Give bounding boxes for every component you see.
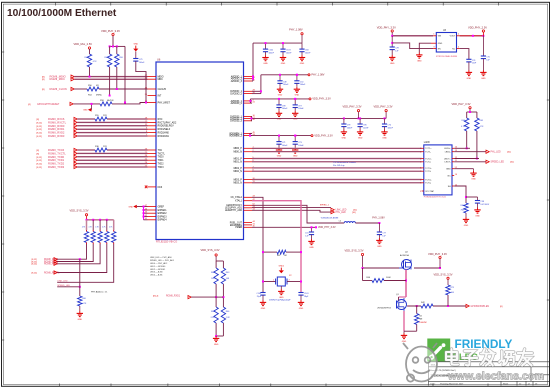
svg-text:CK_XTAL2: CK_XTAL2	[231, 196, 243, 199]
svg-text:100nF: 100nF	[282, 145, 288, 147]
capacitor C73 100nF	[293, 135, 305, 147]
node RGMII_MDIO off-page connector	[42, 75, 74, 79]
node RGMII_TX signal group connectors	[37, 148, 78, 169]
resistor R54 4.7K strap	[102, 227, 109, 245]
power net VDD_PHY_3.3V pullup rail	[101, 29, 120, 36]
svg-text:VDD_PHY_3.3V: VDD_PHY_3.3V	[451, 102, 470, 106]
wire SPEED_LED strap	[57, 286, 81, 288]
wire PHY-RESET right segment	[112, 103, 148, 104]
svg-text:C70: C70	[388, 125, 391, 127]
svg-text:AVDD33_2: AVDD33_2	[231, 102, 243, 105]
power net VDD_PHY_3.3V regulator input	[377, 26, 396, 36]
wire RXD1 strap	[191, 296, 223, 298]
wire R60 drop	[79, 259, 81, 296]
ground below C84	[299, 52, 305, 65]
capacitor C102 100nF	[263, 42, 275, 54]
svg-text:MDI1_N: MDI1_N	[233, 162, 242, 164]
svg-text:DVDDIO_2: DVDDIO_2	[230, 94, 242, 96]
wire RGMII_RX group	[77, 119, 147, 136]
svg-text:RGMII_TXCTL: RGMII_TXCTL	[48, 151, 66, 155]
ground below C97	[292, 108, 298, 121]
svg-text:LEDY+: LEDY+	[444, 158, 451, 160]
svg-text:POE26D021ET/YCT-16: POE26D021ET/YCT-16	[424, 197, 447, 199]
ground switch	[401, 331, 407, 343]
transformer LAN8 left pins	[420, 148, 435, 193]
node RGMII_RX signal group connectors	[37, 117, 78, 138]
svg-text:VDD_PHY_2.5V: VDD_PHY_2.5V	[468, 26, 487, 30]
svg-text:R66: R66	[462, 120, 465, 122]
svg-text:[8,12]: [8,12]	[37, 126, 43, 128]
wire RGMII_TX group	[77, 150, 147, 167]
svg-text:100K/NC: 100K/NC	[419, 322, 427, 324]
svg-text:R4: R4	[419, 316, 421, 318]
svg-text:PHY_NRST: PHY_NRST	[158, 102, 171, 104]
svg-text:NC: NC	[448, 176, 452, 178]
svg-text:GND2: GND2	[279, 266, 284, 268]
wire RGMII_CLKIN right segment	[99, 88, 148, 90]
svg-text:C96: C96	[363, 125, 366, 127]
resistor R52 4.7K strap	[89, 227, 96, 245]
resistor R55 22R	[95, 115, 107, 121]
ground below divider	[213, 336, 219, 346]
wire PHY-RESET left segment	[73, 103, 100, 105]
svg-text:100nF: 100nF	[298, 108, 304, 110]
svg-text:GREF: GREF	[158, 206, 165, 208]
op IC U6 RTL8211E-VB-CG body	[156, 58, 244, 240]
resistor R67 1M	[277, 250, 287, 257]
svg-text:R48: R48	[85, 57, 88, 59]
svg-text:LAN8: LAN8	[424, 141, 430, 144]
svg-text:RXD3/AN1: RXD3/AN1	[158, 135, 170, 138]
resistor R48 4.7K	[85, 54, 98, 67]
svg-text:Sheet: Sheet	[503, 383, 509, 386]
ground below C38	[474, 203, 480, 217]
note PHY Address	[91, 290, 108, 293]
svg-text:PHY Address: 1:1: PHY Address: 1:1	[91, 290, 108, 293]
svg-text:GND: GND	[279, 297, 284, 299]
svg-text:NM: NM	[419, 319, 422, 321]
svg-text:RXC: RXC	[158, 119, 163, 121]
watermark chinese characters	[446, 349, 532, 366]
svg-text:RTL8211E-VB-CG: RTL8211E-VB-CG	[156, 240, 177, 244]
wire RGMII_MDC	[74, 78, 147, 80]
svg-text:SPEED_1: SPEED_1	[320, 204, 330, 206]
power net VDD_PHY_2.5V regulator output	[468, 26, 487, 36]
svg-text:VDD_SYS_3.3V: VDD_SYS_3.3V	[201, 248, 220, 252]
regulator U3 pin stubs	[431, 34, 460, 49]
wire R49 bottom to INT	[109, 67, 111, 97]
svg-text:MDI2_N: MDI2_N	[233, 171, 242, 173]
power net VDD_PHY_3.3V tap A	[342, 105, 361, 119]
capacitor C98 100nF	[276, 98, 288, 110]
svg-text:2N7002MTF1G: 2N7002MTF1G	[377, 308, 391, 310]
svg-text:[8,12]: [8,12]	[37, 167, 43, 169]
logo FriendlyELEC green square	[427, 339, 450, 362]
wire R50 bottom to CLK125	[116, 67, 118, 90]
wire L4 to PHY_1.08V	[355, 222, 380, 224]
wire regulator output	[460, 35, 485, 37]
resistor R55 4.7K strap	[109, 227, 116, 245]
svg-text:16: 16	[455, 174, 457, 176]
svg-text:RGMII_MDC: RGMII_MDC	[50, 77, 65, 81]
wire XTAL1 run	[252, 201, 301, 293]
ground below C98	[276, 108, 282, 121]
svg-text:[10]: [10]	[507, 152, 511, 154]
logo FRIENDLY text	[455, 337, 513, 351]
wire pullup R48 top	[89, 49, 91, 54]
svg-text:TCT1+: TCT1+	[425, 148, 432, 150]
wire regulator EN tie to VIN	[392, 43, 433, 49]
wire divider mid	[215, 284, 224, 307]
wire R66 top	[466, 112, 468, 118]
resistor R53 4.7K strap	[95, 227, 102, 245]
svg-text:LED0-: LED0-	[445, 152, 451, 154]
power net VDD_SYS_3.3V switch	[345, 248, 364, 268]
node LINK_LED strap label	[57, 281, 68, 283]
svg-text:RXD2/AN0: RXD2/AN0	[158, 132, 170, 135]
svg-text:8: 8	[420, 179, 421, 181]
svg-text:L4: L4	[339, 221, 341, 223]
svg-text:VDD_PHY_3.3V: VDD_PHY_3.3V	[312, 98, 331, 101]
svg-text:R62: R62	[211, 272, 214, 274]
svg-text:C48: C48	[283, 81, 286, 83]
ground below C71	[276, 144, 282, 157]
wire VDDMEM rail to IC pins	[249, 133, 252, 136]
ground below C50	[294, 83, 300, 96]
ground below crystal	[278, 286, 284, 299]
svg-text:C100: C100	[256, 293, 261, 295]
svg-text:[8,12]: [8,12]	[37, 129, 43, 131]
wire pullup rail to PHY_NRST	[124, 46, 126, 103]
svg-text:GND: GND	[309, 247, 314, 249]
svg-text:PMEB: PMEB	[235, 227, 242, 229]
svg-text:4: 4	[420, 162, 421, 164]
svg-text:GND: GND	[83, 110, 88, 112]
svg-text:100nF: 100nF	[363, 127, 369, 129]
svg-text:C73: C73	[298, 142, 301, 144]
svg-text:RT9193-28/ALJS33M: RT9193-28/ALJS33M	[436, 55, 457, 58]
svg-text:C75: C75	[486, 57, 489, 59]
svg-text:LINK_LED --- PHY_AD0: LINK_LED --- PHY_AD0	[150, 256, 173, 259]
svg-text:Thursday, March 02, 2017: Thursday, March 02, 2017	[440, 384, 464, 386]
svg-text:GND: GND	[129, 206, 134, 208]
capacitor C48 100nF	[277, 74, 289, 86]
power net VDD_PHY_3.3V row3	[294, 98, 331, 101]
svg-text:VCC TAP: VCC TAP	[425, 190, 434, 193]
capacitor C84 100nF	[299, 43, 311, 54]
svg-text:GND: GND	[78, 319, 83, 321]
net label SPEED_1	[320, 204, 330, 206]
wire R46 right	[384, 280, 406, 282]
wire crystal pin2	[287, 281, 302, 283]
svg-text:6: 6	[420, 168, 421, 170]
wire crystal pin1	[262, 281, 276, 283]
svg-text:GND: GND	[293, 155, 298, 157]
svg-text:TXD3: TXD3	[158, 167, 165, 169]
svg-text:T/R Reserved at Caution: T/R Reserved at Caution	[333, 161, 357, 164]
wire AVDDIO row rail	[253, 42, 302, 44]
svg-text:INT: INT	[158, 95, 162, 97]
svg-text:MDI0_N: MDI0_N	[233, 152, 242, 154]
regulator U3 pin names	[438, 36, 456, 51]
svg-text:C31: C31	[305, 233, 308, 235]
IC U6 right pins with numbers and names	[225, 75, 256, 229]
resistor R46 100K	[366, 277, 391, 283]
no-connect X on pin NC3	[145, 186, 148, 189]
node LINK_LED off-page	[331, 208, 357, 212]
wire LED2 to SPD_LED	[252, 210, 331, 212]
transistor Q1 2N7002 NMOS	[377, 294, 406, 311]
wire RGMII_RXD0 strap	[57, 244, 86, 260]
power net PHY_1.08V row2	[296, 74, 325, 77]
transistor Q2 AO3415A PMOS	[399, 252, 412, 270]
svg-text:TCT2+: TCT2+	[425, 158, 432, 160]
wire LINK_LED strap	[57, 244, 113, 282]
svg-text:EXPAD2: EXPAD2	[158, 212, 168, 215]
svg-text:R63: R63	[226, 272, 229, 274]
ground below C48	[277, 83, 283, 96]
svg-text:PHY_1.08V: PHY_1.08V	[289, 28, 303, 32]
resistor R62 upper left	[211, 268, 218, 284]
svg-text:GND: GND	[471, 179, 476, 181]
svg-text:EXPAD4: EXPAD4	[158, 219, 168, 222]
watermark url text	[447, 371, 544, 383]
wire DVDD33 net long run	[250, 116, 386, 120]
svg-text:C78: C78	[395, 48, 398, 50]
svg-text:22R: 22R	[103, 146, 107, 148]
wire RGMII_MDIO	[74, 76, 147, 78]
svg-text:VDD_PHY_3.3V: VDD_PHY_3.3V	[314, 134, 333, 137]
svg-text:[8,12]: [8,12]	[37, 160, 43, 162]
svg-text:TCT4-: TCT4-	[425, 183, 431, 185]
svg-text:[8,12]: [8,12]	[37, 157, 43, 159]
regulator IC U3 body	[436, 30, 456, 52]
wire switch bottom rail	[404, 330, 417, 332]
ground below C103	[280, 52, 286, 65]
svg-text:RGMII_CLKIN: RGMII_CLKIN	[50, 87, 67, 91]
svg-text:RGMII_RXC6: RGMII_RXC6	[48, 117, 65, 121]
resistor R66 4.7K	[461, 118, 469, 131]
power net VDD_PHY_3.3V switch out	[428, 252, 447, 268]
svg-text:VIN: VIN	[438, 36, 442, 38]
svg-text:0.47/100V: 0.47/100V	[481, 204, 490, 206]
wire Q1 source down	[403, 311, 405, 331]
svg-text:RGMII_RXD1: RGMII_RXD1	[166, 296, 181, 298]
resistor R56 0R	[87, 85, 99, 91]
svg-text:LED1 --- MODE0: LED1 --- MODE0	[150, 266, 166, 268]
node SPEED_LED strap label	[57, 285, 70, 287]
svg-text:100nF: 100nF	[388, 127, 394, 129]
resistor R49 4.7K	[105, 54, 112, 67]
crystal X2 25MHz	[273, 275, 292, 286]
wire R75 bottom	[447, 295, 449, 306]
transformer LAN8 right pins	[444, 147, 457, 188]
svg-text:GND: GND	[214, 344, 219, 346]
svg-text:C38: C38	[481, 201, 484, 203]
sheet title text	[7, 8, 117, 19]
crystal note text	[269, 299, 291, 302]
capacitor C97 100nF	[293, 98, 305, 110]
wire pullup rail	[109, 36, 125, 54]
svg-text:VDD_SYS_3.3V: VDD_SYS_3.3V	[70, 209, 89, 213]
svg-text:R64: R64	[211, 311, 214, 313]
IC U6 left pins with numbers and names	[145, 75, 177, 222]
wire strap bank rail	[86, 219, 114, 221]
resistor R54 label	[88, 95, 103, 97]
svg-text:C79: C79	[139, 59, 142, 61]
svg-text:AO3415A: AO3415A	[400, 254, 409, 257]
svg-text:22R: 22R	[103, 115, 107, 117]
ground below C70	[381, 127, 387, 140]
svg-text:GND: GND	[261, 308, 266, 310]
wire AVDDIO rail to IC pins	[252, 43, 254, 81]
svg-text:R66: R66	[226, 311, 229, 313]
power net VDD_SYS_3.3V divider	[201, 248, 220, 261]
svg-text:5: 5	[420, 191, 421, 193]
svg-text:GND: GND	[277, 119, 282, 121]
wire switch input rail	[362, 267, 400, 269]
ground flag above C79	[133, 44, 138, 52]
wire pullup R48 bottom to MDIO	[89, 67, 91, 78]
svg-text:GND: GND	[464, 225, 469, 227]
resistor R63 upper right	[221, 268, 230, 284]
svg-text:VDD_SYS_3.3V: VDD_SYS_3.3V	[345, 248, 364, 252]
svg-text:100nF: 100nF	[269, 52, 275, 54]
wire LED0- to connector	[454, 151, 486, 153]
IC U6 part number label	[156, 240, 177, 244]
svg-text:SPEED_LED: SPEED_LED	[491, 162, 505, 164]
title block title lines	[431, 370, 545, 379]
logo ELEC text	[453, 352, 478, 363]
capacitor C71 100nF	[276, 135, 288, 147]
svg-text:GND: GND	[358, 137, 363, 139]
svg-text:[8,12]: [8,12]	[37, 133, 43, 135]
svg-text:4A7VN: 4A7VN	[107, 99, 114, 102]
ground below R80	[463, 213, 469, 227]
svg-text:GND: GND	[467, 78, 472, 80]
wire R65 bottom to LEDY+	[476, 131, 478, 160]
svg-text:TXD2: TXD2	[158, 164, 165, 166]
svg-text:[10]: [10]	[352, 212, 356, 214]
svg-text:NC3: NC3	[158, 187, 163, 189]
wire divider bottom tie	[215, 323, 223, 337]
capacitor C79 100nF	[133, 51, 145, 63]
svg-text:XTAL1: XTAL1	[235, 200, 243, 203]
svg-text:100K: 100K	[386, 277, 391, 279]
resistor R36 22R	[95, 146, 107, 152]
ground transformer GND	[470, 171, 476, 181]
svg-text:LED3 --- A:N0: LED3 --- A:N0	[150, 271, 163, 274]
ground below C96	[357, 127, 363, 140]
transformer part number	[424, 197, 447, 199]
svg-text:R75: R75	[451, 287, 454, 289]
wire DVDDIO row rail	[261, 74, 308, 76]
wire RSEL_OUT net	[252, 226, 317, 228]
svg-text:SH: SH	[448, 186, 451, 188]
svg-text:C98: C98	[282, 105, 285, 107]
svg-text:U6: U6	[157, 58, 161, 62]
svg-text:100nF: 100nF	[347, 127, 353, 129]
node RGMII_RXD1 strap connector	[153, 296, 191, 299]
svg-text:RGMII_RXD2: RGMII_RXD2	[48, 131, 65, 135]
node RGMII_CLKIN off-page connector	[42, 87, 74, 91]
svg-text:GND: GND	[475, 215, 480, 217]
svg-text:EXPAD3: EXPAD3	[158, 215, 168, 218]
svg-text:[8,12]: [8,12]	[37, 164, 43, 166]
svg-text:LED4 --- A:N1: LED4 --- A:N1	[150, 274, 163, 277]
svg-text:GPIOC4/PHY-RESET: GPIOC4/PHY-RESET	[37, 104, 60, 106]
wire RGMII_RXCTL strap	[57, 244, 107, 273]
svg-text:GPIOB4/PWR-EN: GPIOB4/PWR-EN	[471, 306, 490, 308]
resistor R60 4.7K	[78, 296, 87, 306]
svg-text:VDD_SYS_3.3V: VDD_SYS_3.3V	[434, 273, 453, 277]
svg-text:9: 9	[420, 183, 421, 185]
wire AVDD33 row rail	[250, 98, 309, 100]
svg-text:AVDDIO_3: AVDDIO_3	[231, 80, 243, 83]
resistor R4 NM	[415, 314, 428, 325]
node PHL_LED off-page	[486, 150, 511, 154]
svg-text:10/100/1000M Ethernet: 10/100/1000M Ethernet	[7, 8, 117, 19]
svg-text:1: 1	[420, 148, 421, 150]
power net PHY_1.08V at L4	[372, 216, 385, 219]
svg-text:VDD_PHY_3.3V: VDD_PHY_3.3V	[101, 29, 120, 33]
capacitor C100 25pF	[256, 293, 265, 298]
svg-text:GND: GND	[342, 137, 347, 139]
svg-text:VDD_PHY_3.3V: VDD_PHY_3.3V	[373, 105, 392, 109]
power net VDD_PHY_3.3V row4	[294, 134, 333, 137]
svg-text:R60: R60	[82, 298, 85, 300]
capacitor C75 1uF	[481, 36, 491, 62]
wire RGMII_CLKIN left segment	[74, 88, 87, 90]
watermark seal graphic	[403, 343, 437, 382]
svg-text:MDI2_P: MDI2_P	[234, 168, 243, 170]
svg-text:C101: C101	[304, 293, 309, 295]
wire C79 bottom to reset node	[136, 61, 147, 103]
wire NC pin drop	[460, 49, 469, 60]
node SPD_LED off-page	[331, 211, 356, 215]
wire transformer GND pin	[454, 169, 473, 171]
svg-text:LEDY-: LEDY-	[445, 162, 451, 164]
resistor R65b lower right	[221, 307, 230, 323]
svg-text:100nF: 100nF	[283, 84, 289, 86]
resistor R42 1K	[421, 302, 433, 308]
capacitor C77 1uF	[377, 223, 387, 237]
wire C38 tap	[466, 197, 478, 201]
ground below C100	[260, 295, 266, 310]
svg-text:VDDMEM_2: VDDMEM_2	[229, 136, 242, 138]
svg-text:100nF: 100nF	[139, 62, 145, 64]
node RGMII_RXD0 strap label	[32, 258, 59, 262]
svg-text:RGMII_TXD0: RGMII_TXD0	[48, 155, 65, 159]
svg-text:VDD_PHY_3.3V: VDD_PHY_3.3V	[428, 252, 447, 256]
svg-text:0R/NC: 0R/NC	[96, 95, 103, 97]
svg-text:GND: GND	[295, 95, 300, 97]
svg-text:GND: GND	[300, 63, 305, 65]
node RGMII_RXCTL strap label	[32, 271, 61, 275]
capacitor C96 100nF	[358, 118, 370, 129]
resistor R64 lower left	[211, 307, 219, 323]
wire regulator GND pin	[419, 43, 431, 52]
wire Q1 drain out	[407, 305, 421, 307]
resistor R80 75R	[461, 203, 469, 213]
capacitor C103 100nF	[280, 42, 292, 54]
svg-text:C50: C50	[300, 81, 303, 83]
transformer LAN8 body	[424, 141, 452, 195]
svg-text:GND: GND	[281, 63, 286, 65]
svg-text:RGMII_TXD1: RGMII_TXD1	[48, 158, 65, 162]
ground below C78	[389, 50, 395, 65]
svg-text:3: 3	[420, 158, 421, 160]
